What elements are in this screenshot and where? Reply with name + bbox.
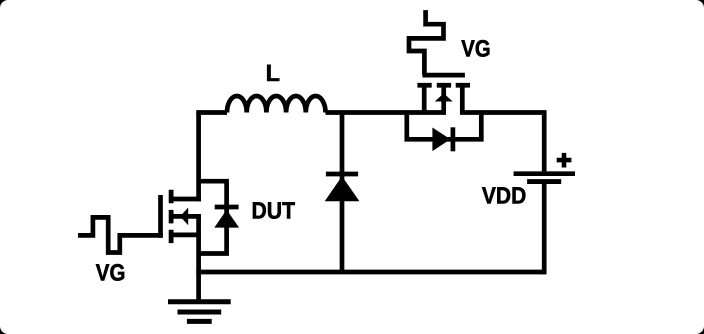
wire (top rail, switch node)	[326, 110, 447, 115]
wire (top rail right)	[460, 110, 547, 115]
VG pulse waveform (DUT gate drive)	[78, 217, 163, 252]
transistor DUT (N-channel MOSFET)	[161, 113, 240, 273]
wire (top-left rail)	[196, 110, 227, 115]
inductor L	[227, 96, 326, 113]
svg-text:VG: VG	[461, 36, 490, 62]
VG pulse waveform (high-side gate drive)	[409, 10, 444, 75]
svg-text:DUT: DUT	[252, 198, 296, 224]
ground	[168, 272, 231, 321]
diode D1 (freewheeling)	[325, 113, 360, 273]
svg-text:VG: VG	[96, 260, 126, 286]
battery V1 (VDD)	[514, 113, 575, 275]
svg-text:VDD: VDD	[482, 183, 526, 209]
wire (bottom rail)	[196, 270, 544, 275]
svg-text:L: L	[266, 60, 280, 86]
transistor Q2 (high-side N-channel MOSFET)	[407, 75, 482, 151]
